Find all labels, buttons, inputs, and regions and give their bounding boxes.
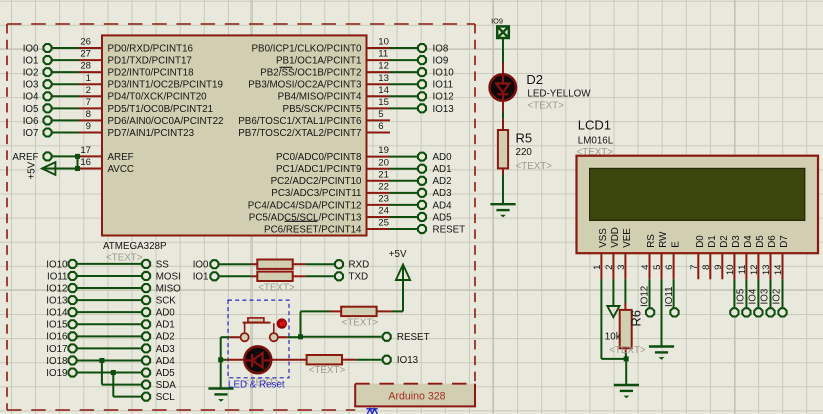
svg-text:8: 8 (701, 265, 712, 270)
svg-text:PD7/AIN1/PCINT23: PD7/AIN1/PCINT23 (108, 128, 195, 139)
svg-text:19: 19 (378, 145, 389, 156)
svg-text:IO13: IO13 (46, 296, 68, 307)
svg-text:8: 8 (86, 109, 91, 120)
svg-text:LCD1: LCD1 (578, 117, 611, 132)
svg-text:IO11: IO11 (433, 80, 454, 91)
svg-text:IO5: IO5 (735, 288, 746, 304)
svg-text:MISO: MISO (156, 283, 181, 294)
svg-text:IO15: IO15 (46, 320, 68, 331)
svg-text:D2: D2 (719, 235, 730, 248)
svg-text:D5: D5 (755, 235, 766, 248)
svg-text:ATMEGA328P: ATMEGA328P (103, 241, 167, 252)
svg-text:AD0: AD0 (433, 152, 453, 163)
svg-text:IO10: IO10 (433, 68, 455, 79)
svg-text:IO2: IO2 (772, 289, 783, 305)
svg-text:PD1/TXD/PCINT17: PD1/TXD/PCINT17 (108, 55, 192, 66)
svg-text:LM016L: LM016L (578, 135, 614, 146)
svg-text:1: 1 (592, 265, 603, 270)
svg-text:AVCC: AVCC (108, 164, 135, 175)
svg-text:MOSI: MOSI (156, 271, 181, 282)
svg-text:AD5: AD5 (433, 212, 453, 223)
svg-text:<TEXT>: <TEXT> (527, 100, 564, 111)
svg-text:+5V: +5V (389, 249, 407, 260)
svg-text:6: 6 (378, 121, 383, 132)
svg-text:Arduino 328: Arduino 328 (388, 390, 445, 402)
svg-text:SCK: SCK (156, 296, 177, 307)
svg-text:RESET: RESET (397, 332, 430, 343)
svg-text:SS: SS (156, 259, 170, 270)
svg-text:5: 5 (652, 265, 663, 270)
svg-text:D0: D0 (695, 235, 706, 248)
svg-text:12: 12 (378, 61, 389, 72)
svg-text:PD6/AIN0/OC0A/PCINT22: PD6/AIN0/OC0A/PCINT22 (108, 116, 224, 127)
svg-text:SDA: SDA (156, 380, 177, 391)
svg-text:AD3: AD3 (433, 188, 453, 199)
svg-text:VDD: VDD (610, 227, 621, 248)
svg-text:IO4: IO4 (747, 288, 758, 304)
svg-text:IO12: IO12 (433, 92, 454, 103)
svg-text:PB3/MOSI/OC2A/PCINT3: PB3/MOSI/OC2A/PCINT3 (248, 80, 362, 91)
svg-text:IO1: IO1 (193, 272, 209, 283)
svg-text:PC0/ADC0/PCINT8: PC0/ADC0/PCINT8 (276, 152, 362, 163)
svg-text:9: 9 (713, 265, 724, 270)
svg-text:17: 17 (80, 145, 91, 156)
svg-text:1: 1 (86, 73, 91, 84)
svg-text:AD1: AD1 (156, 320, 175, 331)
svg-text:<TEXT>: <TEXT> (342, 317, 379, 328)
svg-text:10: 10 (725, 265, 736, 276)
svg-text:AD2: AD2 (433, 176, 452, 187)
svg-text:IO12: IO12 (46, 283, 67, 294)
svg-text:IO16: IO16 (46, 332, 68, 343)
svg-text:IO11: IO11 (47, 271, 68, 282)
svg-text:IO6: IO6 (23, 116, 39, 127)
svg-text:10: 10 (378, 37, 389, 48)
svg-text:11: 11 (378, 49, 388, 60)
svg-text:<TEXT>: <TEXT> (258, 282, 295, 293)
svg-text:LED-YELLOW: LED-YELLOW (527, 89, 591, 100)
svg-text:AD2: AD2 (156, 332, 175, 343)
svg-text:21: 21 (378, 169, 389, 180)
svg-text:D7: D7 (779, 235, 790, 248)
svg-text:PC1/ADC1/PCINT9: PC1/ADC1/PCINT9 (276, 164, 361, 175)
svg-text:D4: D4 (743, 235, 754, 248)
svg-text:7: 7 (86, 97, 91, 108)
svg-text:2: 2 (604, 265, 615, 270)
svg-text:<TEXT>: <TEXT> (516, 161, 553, 172)
svg-text:PB1/OC1A/PCINT1: PB1/OC1A/PCINT1 (276, 55, 361, 66)
svg-text:VSS: VSS (598, 228, 609, 248)
svg-text:RXD: RXD (349, 260, 370, 271)
svg-text:IO19: IO19 (46, 368, 67, 379)
svg-text:PB2/SS/OC1B/PCINT2: PB2/SS/OC1B/PCINT2 (260, 68, 361, 79)
svg-text:RESET: RESET (433, 224, 466, 235)
svg-text:D1: D1 (707, 235, 718, 248)
svg-text:22: 22 (378, 181, 389, 192)
svg-text:IO10: IO10 (46, 259, 68, 270)
svg-text:IO8: IO8 (433, 43, 449, 54)
svg-text:14: 14 (773, 264, 784, 275)
svg-text:IO5: IO5 (23, 104, 39, 115)
svg-text:9: 9 (86, 121, 91, 132)
svg-text:IO7: IO7 (23, 128, 39, 139)
svg-text:3: 3 (616, 265, 627, 270)
svg-text:PD3/INT1/OC2B/PCINT19: PD3/INT1/OC2B/PCINT19 (108, 80, 223, 91)
svg-text:AD0: AD0 (156, 308, 176, 319)
svg-text:PB4/MISO/PCINT4: PB4/MISO/PCINT4 (278, 92, 362, 103)
svg-text:PB0/ICP1/CLKO/PCINT0: PB0/ICP1/CLKO/PCINT0 (252, 43, 363, 54)
svg-text:16: 16 (80, 157, 91, 168)
svg-text:RW: RW (658, 231, 669, 248)
svg-text:AREF: AREF (108, 152, 134, 163)
svg-text:AD1: AD1 (433, 164, 452, 175)
svg-text:AD3: AD3 (156, 344, 176, 355)
svg-text:+5V: +5V (27, 161, 38, 179)
svg-text:PC4/ADC4/SDA/PCINT12: PC4/ADC4/SDA/PCINT12 (248, 200, 362, 211)
svg-text:LED & Reset: LED & Reset (228, 379, 285, 390)
svg-text:13: 13 (378, 73, 389, 84)
svg-text:AD4: AD4 (433, 200, 453, 211)
svg-text:PC2/ADC2/PCINT10: PC2/ADC2/PCINT10 (271, 176, 362, 187)
svg-text:24: 24 (378, 206, 389, 217)
svg-text:20: 20 (378, 157, 389, 168)
svg-text:PD0/RXD/PCINT16: PD0/RXD/PCINT16 (108, 43, 194, 54)
svg-text:AREF: AREF (12, 152, 38, 163)
svg-text:IO3: IO3 (23, 80, 39, 91)
svg-text:IO17: IO17 (46, 344, 67, 355)
svg-text:PB6/TOSC1/XTAL1/PCINT6: PB6/TOSC1/XTAL1/PCINT6 (238, 116, 362, 127)
svg-text:10k: 10k (605, 331, 621, 342)
svg-text:13: 13 (761, 265, 772, 276)
svg-text:IO18: IO18 (46, 356, 68, 367)
svg-text:IO9: IO9 (433, 55, 449, 66)
svg-text:IO11: IO11 (664, 286, 675, 307)
svg-text:PD4/T0/XCK/PCINT20: PD4/T0/XCK/PCINT20 (108, 92, 208, 103)
svg-text:IO2: IO2 (23, 68, 39, 79)
svg-text:14: 14 (378, 85, 389, 96)
svg-text:TXD: TXD (349, 272, 369, 283)
svg-text:28: 28 (80, 61, 91, 72)
svg-text:IO13: IO13 (397, 355, 419, 366)
svg-text:220: 220 (516, 147, 533, 158)
svg-text:23: 23 (378, 194, 389, 205)
svg-text:PB5/SCK/PCINT5: PB5/SCK/PCINT5 (283, 104, 362, 115)
svg-text:11: 11 (737, 265, 748, 275)
svg-text:RS: RS (646, 234, 657, 248)
svg-text:D6: D6 (767, 235, 778, 248)
svg-text:25: 25 (378, 218, 389, 229)
svg-text:IO0: IO0 (23, 43, 39, 54)
svg-text:PC6/RESET/PCINT14: PC6/RESET/PCINT14 (264, 224, 362, 235)
svg-text:IO9: IO9 (491, 17, 503, 26)
svg-text:PC3/ADC3/PCINT11: PC3/ADC3/PCINT11 (271, 188, 361, 199)
svg-text:<TEXT>: <TEXT> (106, 253, 143, 264)
svg-text:IO14: IO14 (46, 308, 68, 319)
svg-text:5: 5 (378, 109, 383, 120)
svg-text:R6: R6 (629, 310, 644, 327)
svg-text:2: 2 (86, 85, 91, 96)
svg-text:12: 12 (749, 265, 760, 276)
svg-text:R5: R5 (516, 131, 533, 146)
svg-text:4: 4 (640, 264, 651, 270)
svg-text:IO13: IO13 (433, 104, 455, 115)
svg-text:E: E (670, 241, 681, 248)
svg-text:IO12: IO12 (640, 286, 651, 307)
svg-text:PB7/TOSC2/XTAL2/PCINT7: PB7/TOSC2/XTAL2/PCINT7 (238, 128, 361, 139)
svg-text:7: 7 (689, 265, 700, 270)
svg-text:15: 15 (378, 97, 389, 108)
svg-text:IO1: IO1 (23, 55, 39, 66)
svg-text:SCL: SCL (156, 392, 176, 403)
svg-text:<TEXT>: <TEXT> (309, 365, 346, 376)
svg-text:AD5: AD5 (156, 368, 176, 379)
svg-text:D3: D3 (731, 235, 742, 248)
svg-text:6: 6 (664, 265, 675, 270)
svg-text:27: 27 (80, 49, 91, 60)
svg-text:IO4: IO4 (23, 92, 39, 103)
svg-text:IO0: IO0 (193, 260, 209, 271)
svg-text:PD2/INT0/PCINT18: PD2/INT0/PCINT18 (108, 68, 195, 79)
svg-text:VEE: VEE (622, 228, 633, 248)
svg-text:IO3: IO3 (760, 288, 771, 304)
svg-text:26: 26 (80, 37, 91, 48)
svg-text:PD5/T1/OC0B/PCINT21: PD5/T1/OC0B/PCINT21 (108, 104, 214, 115)
svg-text:AD4: AD4 (156, 356, 176, 367)
svg-text:D2: D2 (526, 72, 543, 87)
svg-text:<TEXT>: <TEXT> (609, 345, 646, 356)
